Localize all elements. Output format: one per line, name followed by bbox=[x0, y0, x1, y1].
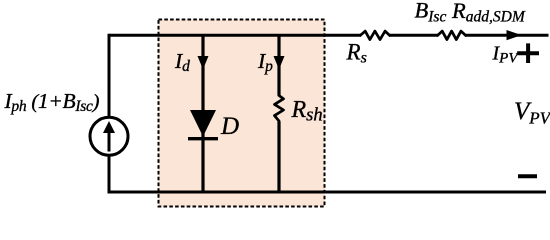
diode D bbox=[190, 110, 216, 137]
current source Iph bbox=[90, 117, 128, 155]
wire bottom rail bbox=[109, 191, 546, 194]
wire diode branch bbox=[201, 35, 204, 192]
current arrow Id bbox=[198, 56, 209, 69]
svg-text:VPV: VPV bbox=[514, 98, 550, 127]
intrinsic SDM block (dashed box) bbox=[159, 20, 325, 207]
terminal minus bbox=[518, 174, 537, 178]
resistor Radd,SDM zigzag bbox=[438, 31, 466, 39]
resistor Rs zigzag bbox=[360, 31, 389, 39]
current arrow Ip bbox=[274, 56, 285, 69]
wire top rail bbox=[109, 34, 549, 37]
terminal plus bbox=[517, 43, 539, 63]
wire shunt branch bbox=[277, 35, 280, 192]
wire left branch lower bbox=[108, 156, 111, 194]
current arrow IPV bbox=[507, 30, 522, 40]
svg-text:IPV: IPV bbox=[492, 43, 520, 67]
svg-text:Rs: Rs bbox=[346, 40, 367, 67]
svg-text:Iph (1+BIsc): Iph (1+BIsc) bbox=[4, 89, 100, 115]
svg-text:Radd,SDM: Radd,SDM bbox=[451, 0, 526, 25]
wire left branch upper bbox=[108, 34, 111, 117]
svg-text:D: D bbox=[220, 113, 239, 140]
resistor Rsh zigzag bbox=[275, 96, 284, 122]
svg-text:BIsc: BIsc bbox=[415, 0, 447, 25]
